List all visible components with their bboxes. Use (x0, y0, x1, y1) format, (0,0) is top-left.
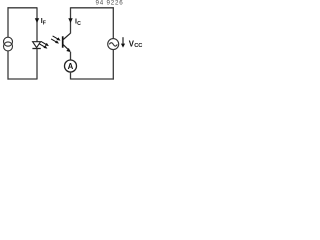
wire: right vertical upper (112, 7, 114, 39)
wire: emitter vertical to ammeter (70, 52, 72, 60)
AC source VCC supply (108, 39, 119, 50)
svg-text:CC: CC (134, 43, 142, 49)
current arrow IC (68, 18, 72, 23)
wire: collector vertical up (70, 7, 72, 33)
wire: right loop top (71, 7, 114, 9)
svg-text:94 9226: 94 9226 (96, 0, 124, 7)
ammeter A1 (65, 60, 77, 72)
wire: left loop bottom (8, 78, 38, 80)
arrow VCC (121, 37, 125, 47)
wire: LED anode branch vertical (36, 7, 38, 42)
phototransistor Q1 (63, 33, 71, 52)
LED D1 (optocoupler emitter diode) (32, 42, 40, 49)
light arrows into phototransistor (51, 36, 60, 44)
svg-text:C: C (77, 21, 81, 27)
svg-text:A: A (68, 62, 74, 71)
current source B1 (two interlocked circles) (4, 37, 13, 51)
wire: left loop top (8, 7, 38, 9)
wire: left loop left vertical lower (7, 51, 9, 80)
wire: LED cathode down (36, 49, 38, 79)
wire: left loop left vertical upper (7, 7, 9, 37)
wire: right loop bottom (71, 78, 114, 80)
wire: right vertical lower (112, 50, 114, 80)
light arrows from LED (40, 41, 49, 48)
svg-text:F: F (43, 20, 46, 26)
current arrow IF (35, 18, 39, 23)
wire: ammeter to bottom wire (70, 72, 72, 80)
